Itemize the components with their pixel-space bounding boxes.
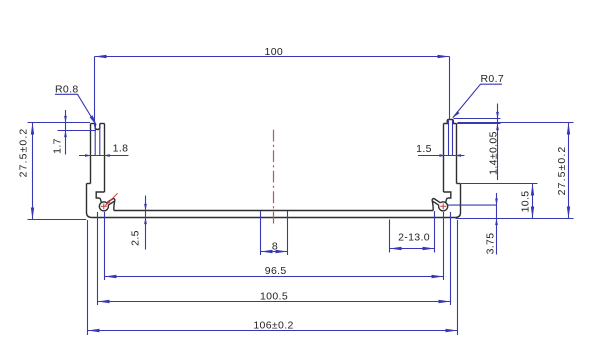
floor bottom line (92, 217, 455, 219)
1.5 right arrow (455, 154, 461, 157)
left boss to floor (113, 201, 116, 211)
right boss to floor (431, 201, 434, 211)
1.8 ext lines from groove (95, 126, 100, 156)
left boss slot (107, 198, 115, 205)
3.75 dim line (496, 193, 498, 255)
1.7 top arrow (64, 116, 67, 123)
1.8 dim line (79, 155, 129, 157)
27.5 right dim line (568, 123, 570, 219)
right outer lower edge + bottom fillet (455, 184, 460, 218)
right boss center cross (red) (440, 203, 446, 209)
left boss center cross (red) (101, 203, 107, 209)
1.4 dim line (497, 104, 499, 181)
3.75 ext from boss (448, 204, 497, 206)
left wall inner face (104, 124, 106, 193)
R0.8 leader arrowhead (90, 115, 97, 125)
svg-text:1.4±0.05: 1.4±0.05 (488, 131, 500, 175)
27.5 left ext top (28, 122, 91, 124)
svg-text:10.5: 10.5 (520, 191, 532, 213)
2.5 top arrow (144, 204, 147, 211)
svg-text:27.5±0.2: 27.5±0.2 (556, 146, 568, 196)
8 ext lines (261, 211, 288, 255)
right inner notch (444, 192, 451, 198)
svg-text:27.5±0.2: 27.5±0.2 (18, 128, 30, 178)
svg-text:3.75: 3.75 (485, 233, 497, 255)
left wall top inner prong (100, 123, 105, 125)
svg-text:100: 100 (265, 46, 284, 58)
dim 100 left extension down (94, 57, 96, 127)
left screw boss circle (99, 202, 108, 211)
svg-text:100.5: 100.5 (260, 290, 288, 302)
left step out (87, 183, 91, 185)
svg-text:R0.7: R0.7 (481, 73, 505, 85)
dim 100 line (95, 56, 450, 58)
R0.7 leader (453, 84, 502, 117)
1.8 right arrow (104, 154, 110, 157)
right wall inner face (443, 124, 445, 193)
left boss neck curve (100, 198, 102, 202)
100.5 dim line (98, 301, 451, 303)
27.5 right ext bottom (long) (456, 218, 574, 220)
96.5 ext lines (105, 212, 444, 280)
right wall top with R0.7 bump (444, 120, 457, 124)
1.5 left arrow (439, 154, 445, 157)
right boss neck curve (446, 198, 448, 202)
96.5 dim line (105, 276, 444, 278)
8 dim line (261, 251, 288, 253)
left inner notch (96, 192, 104, 198)
floor top line (114, 210, 433, 212)
1.7 ext (groove bottom) (58, 130, 97, 132)
10.5 ext top (461, 183, 538, 185)
106 dim line (88, 330, 458, 332)
centerline (273, 130, 275, 225)
R0.8 leader (55, 94, 96, 124)
2.5 bottom arrow (144, 218, 147, 225)
svg-text:2.5: 2.5 (130, 230, 142, 246)
100.5 ext lines (98, 212, 451, 305)
106 ext lines (88, 220, 458, 335)
left red arrowhead (105, 200, 111, 206)
svg-text:R0.8: R0.8 (55, 83, 79, 95)
svg-text:1.7: 1.7 (52, 138, 64, 154)
right wall outer edge upper (456, 124, 458, 184)
left wall outer edge upper (90, 124, 92, 184)
svg-text:96.5: 96.5 (265, 265, 287, 277)
1.4 ext top (454, 118, 501, 120)
left wall top outer prong (91, 123, 96, 125)
3.75 top arrow (495, 199, 498, 206)
2-13.0 ext lines (390, 211, 435, 253)
svg-text:1.8: 1.8 (113, 143, 129, 155)
1.5 ext lines from bump (449, 121, 453, 156)
right boss slot (432, 198, 440, 205)
svg-text:1.5: 1.5 (416, 143, 432, 155)
left top groove R0.8 (95, 124, 100, 130)
svg-text:8: 8 (272, 241, 278, 253)
right screw boss circle (439, 202, 448, 211)
1.4 ext bottom (457, 123, 501, 125)
R0.7 leader arrowhead (453, 111, 460, 118)
27.5 right ext top (458, 122, 574, 124)
2.5 dim line (145, 196, 147, 250)
1.4 top arrow (496, 112, 499, 119)
3.75 bottom arrow (495, 219, 498, 226)
right step out (457, 183, 461, 185)
1.7 dim line (65, 110, 67, 155)
1.7 bottom arrow (64, 131, 67, 138)
2-13.0 dim line (390, 248, 435, 250)
left boss leader line (red) (106, 193, 118, 205)
27.5 left ext bottom (28, 219, 87, 221)
1.8 left arrow (85, 154, 91, 157)
1.5 dim line (418, 155, 465, 157)
svg-text:106±0.2: 106±0.2 (253, 319, 293, 331)
left outer lower edge + bottom fillet (87, 184, 92, 218)
svg-text:2-13.0: 2-13.0 (398, 232, 430, 244)
1.4 bottom arrow (496, 124, 499, 131)
dim 100 right extension down (449, 57, 451, 121)
27.5 left dim line (32, 123, 34, 220)
10.5 dim line (532, 184, 534, 219)
